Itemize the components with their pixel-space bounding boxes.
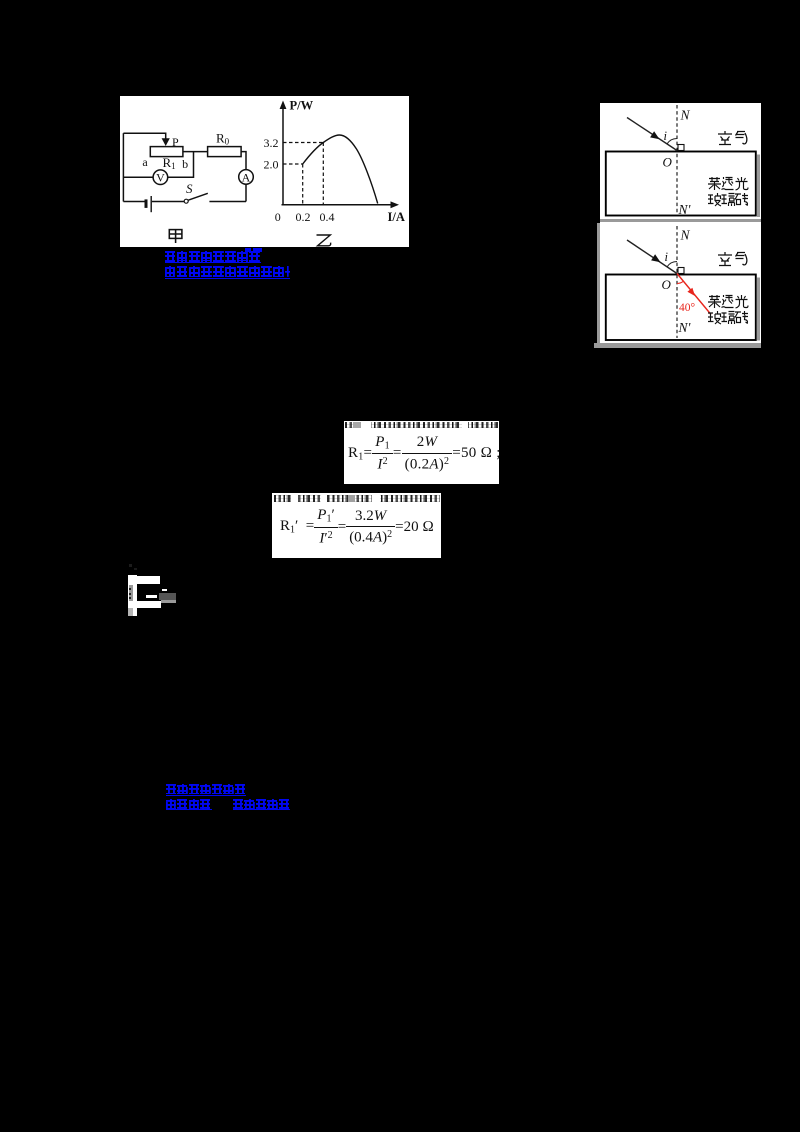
svg-text:b: b <box>182 156 188 170</box>
svg-text:i: i <box>664 129 668 143</box>
gray band under figB1 <box>600 219 761 223</box>
brick right shadow <box>757 278 760 341</box>
angle i arc <box>667 139 677 144</box>
normal line N-N' dashed <box>676 105 678 215</box>
svg-text:V: V <box>156 170 165 184</box>
P-I curve <box>302 135 377 204</box>
formula image 2 <box>272 493 441 558</box>
svg-text:N: N <box>680 108 691 123</box>
FIGURE A: circuit 甲 and power graph 乙 <box>120 96 410 248</box>
wire switch to ammeter <box>209 200 246 202</box>
normal line N-N' dashed <box>676 226 678 338</box>
wire voltmeter right up to node b <box>167 151 193 177</box>
switch S pivot and lever <box>184 199 188 203</box>
incident ray <box>627 118 677 151</box>
svg-text:0: 0 <box>274 209 280 223</box>
svg-text:S: S <box>186 181 193 196</box>
ammeter A <box>238 169 253 184</box>
wire bottom left <box>123 200 145 202</box>
label 玻璃砖 <box>708 311 748 324</box>
right-angle square at O <box>678 145 684 151</box>
angle i arc <box>667 262 677 267</box>
wire ammeter down <box>245 184 247 202</box>
label 某透光 <box>708 295 748 308</box>
incident arrowhead <box>651 254 660 262</box>
svg-text:0.4: 0.4 <box>319 209 334 223</box>
FIGURE B2: refraction diagram with red refracted ray <box>600 222 761 343</box>
svg-text:I/A: I/A <box>387 209 404 223</box>
label 甲 glyph <box>169 229 182 242</box>
blue link block 1 <box>165 251 291 279</box>
svg-text:2.0: 2.0 <box>263 157 278 171</box>
svg-text:A: A <box>241 170 250 184</box>
link line 1 <box>166 784 246 796</box>
svg-text:40°: 40° <box>679 302 696 314</box>
label 某透光 <box>708 177 748 190</box>
glass brick outline <box>606 275 756 341</box>
incident ray <box>627 240 677 274</box>
svg-text:i: i <box>665 250 669 264</box>
small white fragment <box>126 562 182 618</box>
svg-text:O: O <box>662 277 672 292</box>
red refraction angle arc <box>677 281 683 283</box>
link line 2 <box>166 799 290 812</box>
formula R1' = P1'/I'^2 = 3.2W/(0.4A)^2 = 20 ohm <box>280 501 440 553</box>
blue text peeking below figure A <box>245 248 251 251</box>
label 乙 glyph <box>316 235 330 246</box>
svg-text:O: O <box>663 155 673 170</box>
resistor R0 body <box>207 146 241 156</box>
link line 2 <box>165 266 291 279</box>
dashed guides <box>283 142 323 204</box>
battery short thick plate <box>144 199 147 208</box>
refracted red ray <box>677 274 711 315</box>
formula image 1 <box>344 421 499 484</box>
svg-text:0.2: 0.2 <box>295 209 310 223</box>
link line 1 <box>165 251 262 264</box>
svg-text:a: a <box>142 155 148 169</box>
red arrowhead <box>687 288 695 296</box>
battery long thin plate <box>150 196 152 212</box>
svg-text:N: N <box>680 228 691 243</box>
clipped text strip <box>345 422 498 428</box>
svg-text:P/W: P/W <box>289 98 313 112</box>
formula R1 = P1/I^2 = 2W/(0.2A)^2 = 50 ohm <box>348 426 500 481</box>
blue link block 2 <box>166 784 290 812</box>
gray band under figB2 <box>594 343 762 348</box>
glass brick outline <box>606 152 756 216</box>
voltmeter V <box>153 169 168 184</box>
label 玻璃砖 <box>708 193 748 206</box>
svg-text:N': N' <box>678 320 692 335</box>
FIGURE B1: refraction diagram (incident only) <box>600 103 761 219</box>
label 空气 <box>718 131 747 145</box>
svg-text:R0: R0 <box>216 130 230 146</box>
rheostat R1 body <box>150 146 183 156</box>
wire top to slider <box>123 133 165 138</box>
graph: x axis I/A <box>281 203 392 205</box>
brick right shadow <box>757 155 760 218</box>
wire rheostat to R0 <box>182 150 207 152</box>
label 空气 <box>718 252 747 266</box>
wire voltmeter left <box>123 176 153 178</box>
wire battery to switch <box>151 200 183 202</box>
wire R0 to ammeter <box>241 151 246 169</box>
svg-text:P: P <box>172 134 179 148</box>
graph: y axis P/W <box>282 105 284 205</box>
svg-text:N': N' <box>678 202 692 217</box>
right-angle square at O <box>678 268 684 274</box>
incident arrowhead <box>650 131 659 139</box>
slider arrow P <box>161 138 169 146</box>
svg-text:3.2: 3.2 <box>263 136 278 150</box>
gray left strip of figB2 <box>597 223 601 343</box>
wire left vertical <box>122 133 124 201</box>
clipped text strip <box>274 495 440 502</box>
